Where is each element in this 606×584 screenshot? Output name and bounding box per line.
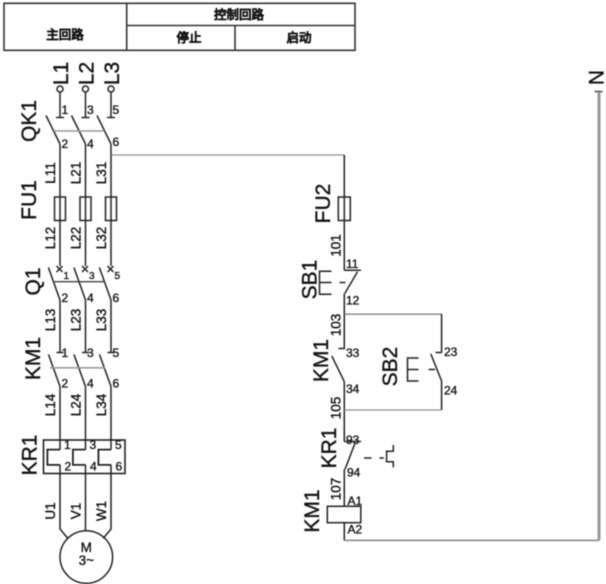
svg-text:105: 105: [329, 397, 344, 420]
KR1 heater pole1: [47, 450, 60, 465]
svg-text:Q1: Q1: [22, 267, 45, 295]
KM1 pin 2: [62, 377, 69, 391]
svg-text:N: N: [586, 70, 606, 85]
KR1 pin 1: [64, 438, 71, 452]
wire KR1 to coil: [343, 469, 345, 506]
QK1 pole1 blade: [46, 116, 60, 145]
Q1 pole1 x mark: [57, 266, 63, 272]
wire Q1 to KM1 pole3: [110, 300, 112, 353]
SB2 actuator: [408, 358, 419, 381]
Q1 pin 5: [115, 271, 121, 282]
svg-text:4: 4: [90, 460, 97, 474]
svg-text:1: 1: [64, 438, 71, 452]
wire L2 to QK1: [85, 92, 87, 118]
KM1 pole2 blade: [74, 355, 86, 387]
wire KR1 to motor W1: [103, 465, 111, 539]
svg-text:L12: L12: [43, 227, 58, 250]
table text 控制回路: [214, 7, 265, 22]
wire L24 label: [69, 393, 84, 416]
KR1 box: [44, 440, 126, 474]
KM1 pin 5: [113, 346, 120, 360]
contact KR1 aux label: [318, 428, 341, 469]
fuse FU1 pole1: [55, 197, 66, 221]
svg-text:2: 2: [62, 377, 69, 391]
svg-text:L2: L2: [76, 62, 99, 85]
SB2 top tick: [436, 352, 443, 354]
KM1 aux pin 33: [346, 346, 360, 360]
contact KM1 aux label: [310, 339, 333, 382]
wire U1 label: [43, 502, 58, 519]
wire KR1 to motor U1: [60, 465, 68, 539]
svg-text:3: 3: [87, 346, 94, 360]
KR1 aux pin 93: [346, 433, 360, 447]
table text 停止: [176, 30, 202, 45]
wire bottom return to N: [344, 539, 599, 541]
svg-text:KR1: KR1: [19, 435, 42, 476]
fuse FU1 wire pole1: [59, 197, 61, 221]
svg-text:FU1: FU1: [18, 180, 41, 220]
SB1 top tick: [344, 269, 361, 271]
QK1 pin 2: [62, 137, 69, 151]
Q1 pin 6: [113, 291, 120, 305]
breaker Q1 label: [22, 267, 45, 295]
svg-text:103: 103: [329, 314, 344, 337]
KM1 pin 4: [87, 377, 94, 391]
wire L23 label: [69, 309, 84, 332]
svg-text:107: 107: [329, 478, 344, 501]
svg-text:93: 93: [346, 433, 360, 447]
svg-text:6: 6: [113, 377, 120, 391]
table text 启动: [286, 30, 312, 45]
svg-text:23: 23: [444, 345, 458, 359]
wire control drop to FU2: [343, 155, 345, 197]
title table frame: [4, 3, 355, 50]
svg-text:94: 94: [347, 466, 361, 480]
KR1 aux pin 94: [347, 466, 361, 480]
QK1 pole3 blade: [97, 116, 111, 145]
fuse FU1 label: [18, 180, 41, 220]
wire L1 to QK1: [59, 92, 61, 118]
SB1 pin 12: [346, 294, 360, 308]
svg-text:4: 4: [87, 137, 94, 151]
KR1 trip link dashes: [364, 457, 384, 459]
KM1 pin 3: [87, 346, 94, 360]
wire N line: [598, 92, 601, 540]
KM1 pole3 top tick: [108, 352, 115, 354]
SB1 actuator link dash: [340, 282, 346, 284]
wire Q1 to KM1 pole1: [59, 300, 61, 353]
wire FU2 to SB1: [343, 221, 345, 271]
svg-text:V1: V1: [69, 503, 84, 520]
Q1 pole2 blade: [74, 268, 86, 301]
wire L31 label: [94, 162, 109, 185]
fuse FU2 label: [312, 184, 335, 224]
fuse FU1 wire pole3: [110, 197, 112, 221]
svg-text:24: 24: [444, 384, 458, 398]
coil KM1 pin A1: [348, 494, 363, 508]
wire L3 to QK1: [110, 92, 112, 118]
svg-text:2: 2: [62, 291, 69, 305]
svg-text:L23: L23: [69, 309, 84, 332]
KM1 pole1 top tick: [57, 352, 64, 354]
wire QK1 to FU1 pole3: [110, 144, 112, 197]
wire KM1 aux to node 105: [343, 382, 345, 442]
wire branch bottom from SB2: [344, 409, 441, 411]
svg-text:11: 11: [346, 257, 359, 271]
wire W1 label: [94, 501, 109, 521]
svg-text:4: 4: [87, 377, 94, 391]
fuse FU2: [338, 197, 350, 221]
svg-text:3~: 3~: [79, 553, 95, 568]
KM1 aux top tick: [339, 348, 346, 350]
svg-text:KM1: KM1: [310, 339, 333, 382]
wire L32 label: [94, 227, 109, 250]
KR1 heater pole2: [73, 450, 86, 465]
svg-text:SB1: SB1: [299, 260, 322, 300]
motor M text: [81, 540, 92, 555]
node L2 label: [76, 62, 99, 85]
wire L33 label: [94, 309, 109, 332]
coil KM1 label: [301, 489, 324, 532]
svg-text:FU2: FU2: [312, 184, 335, 224]
svg-text:2: 2: [65, 460, 72, 474]
wire SB1 to node 103: [343, 294, 345, 349]
wire L13 label: [43, 309, 58, 332]
pushbutton SB2 label: [379, 347, 402, 387]
KR1 aux blade: [345, 444, 355, 469]
svg-text:2: 2: [62, 137, 69, 151]
svg-text:1: 1: [62, 346, 69, 360]
terminal circle L2: [83, 86, 89, 92]
svg-text:33: 33: [346, 346, 360, 360]
svg-text:L22: L22: [69, 227, 84, 250]
KR1 pin 2: [65, 460, 72, 474]
wire SB2 drop: [441, 314, 443, 352]
motor 3~ text: [79, 553, 95, 568]
Q1 linkage bar: [53, 281, 105, 283]
contactor KM1 label: [22, 337, 45, 380]
wire FU1 to Q1 pole1: [59, 221, 61, 267]
fuse FU2 wire: [343, 197, 345, 221]
svg-text:L1: L1: [50, 62, 73, 85]
N line top tick: [595, 91, 603, 93]
svg-text:5: 5: [113, 103, 120, 117]
Q1 pole3 blade: [99, 268, 111, 301]
Q1 pin 3: [89, 271, 95, 282]
SB2 blade: [431, 354, 442, 381]
svg-text:KM1: KM1: [301, 489, 324, 532]
KM1 aux blade: [332, 356, 345, 382]
terminal circle L1: [57, 86, 63, 92]
switch QK1 label: [18, 100, 41, 142]
QK1 pole1 top tick: [56, 117, 64, 119]
KR1 pin 5: [115, 438, 122, 452]
coil KM1 pin A2: [348, 523, 363, 537]
wire 103 label: [329, 314, 344, 337]
svg-text:6: 6: [113, 291, 120, 305]
QK1 pin 4: [87, 137, 94, 151]
svg-text:5: 5: [115, 271, 121, 282]
svg-text:3: 3: [87, 103, 94, 117]
QK1 pin 5: [113, 103, 120, 117]
QK1 pole2 blade: [72, 116, 86, 145]
thermal relay KR1 label: [19, 435, 42, 476]
node L1 label: [50, 62, 73, 85]
SB1 actuator: [320, 271, 332, 294]
table text 主回路: [46, 27, 84, 42]
svg-text:1: 1: [62, 103, 69, 117]
svg-text:6: 6: [113, 135, 120, 149]
wire L14 label: [43, 393, 58, 416]
QK1 pin 6: [113, 135, 120, 149]
svg-text:L3: L3: [101, 62, 124, 85]
wire KM1 to KR1 pole1: [59, 387, 61, 450]
svg-text:1: 1: [64, 271, 70, 282]
KM1 aux pin 34: [346, 382, 360, 396]
Q1 pin 1: [64, 271, 70, 282]
wire Q1 to KM1 pole2: [85, 300, 87, 353]
KM1 pole3 blade: [100, 355, 112, 387]
svg-text:QK1: QK1: [18, 100, 41, 142]
svg-text:SB2: SB2: [379, 347, 402, 387]
svg-text:主回路: 主回路: [46, 27, 84, 42]
wire 101 label: [329, 234, 344, 257]
svg-text:4: 4: [87, 291, 94, 305]
svg-text:101: 101: [329, 234, 344, 257]
wire L21 label: [69, 162, 84, 185]
svg-text:L13: L13: [43, 309, 58, 332]
svg-text:U1: U1: [43, 502, 58, 519]
wire QK1 to FU1 pole1: [59, 144, 61, 197]
wire L22 label: [69, 227, 84, 250]
svg-text:L11: L11: [43, 162, 58, 184]
QK1 pin 3: [87, 103, 94, 117]
svg-text:A2: A2: [348, 523, 363, 537]
KM1 pin 6: [113, 377, 120, 391]
pushbutton SB1 label: [299, 260, 322, 300]
wire QK1 to FU1 pole2: [85, 144, 87, 197]
QK1 linkage bar: [54, 130, 105, 132]
KR1 pin 6: [116, 460, 123, 474]
wire V1 label: [69, 503, 84, 520]
svg-text:34: 34: [346, 382, 360, 396]
svg-text:5: 5: [115, 438, 122, 452]
svg-text:6: 6: [116, 460, 123, 474]
svg-text:3: 3: [89, 271, 95, 282]
wire KR1 to motor V1: [85, 465, 87, 531]
svg-text:KR1: KR1: [318, 428, 341, 469]
svg-text:L21: L21: [69, 162, 84, 185]
svg-text:5: 5: [113, 346, 120, 360]
QK1 pin 1: [62, 103, 69, 117]
fuse FU1 wire pole2: [85, 197, 87, 221]
wire 107 label: [329, 478, 344, 501]
svg-text:W1: W1: [94, 501, 109, 521]
svg-text:停止: 停止: [176, 30, 202, 45]
KM1 linkage bar: [50, 367, 105, 369]
wire L11 label: [43, 162, 58, 184]
wire 105 label: [329, 397, 344, 420]
node L3 label: [101, 62, 124, 85]
wire coil to corner: [343, 523, 345, 541]
fuse FU1 pole3: [106, 197, 117, 221]
wire branch top to SB2: [344, 313, 441, 315]
Q1 pole3 x mark: [108, 266, 114, 272]
wire L12 label: [43, 227, 58, 250]
wire KM1 to KR1 pole3: [110, 387, 112, 450]
wire SB2 return drop: [441, 381, 443, 410]
svg-text:KM1: KM1: [22, 337, 45, 380]
Q1 pole1 blade: [48, 268, 60, 301]
wire FU1 to Q1 pole3: [110, 221, 112, 267]
wire control tap from L31: [111, 154, 344, 156]
svg-text:L33: L33: [94, 309, 109, 332]
KR1 pin 3: [90, 438, 97, 452]
motor M1 circle: [60, 531, 113, 584]
svg-text:L34: L34: [94, 393, 109, 416]
QK1 pole2 top tick: [82, 117, 90, 119]
Q1 pin 2: [62, 291, 69, 305]
svg-text:L24: L24: [69, 393, 84, 416]
svg-text:控制回路: 控制回路: [214, 7, 265, 22]
node N label: [586, 70, 606, 85]
KR1 aux top tick: [344, 441, 361, 443]
svg-text:12: 12: [346, 294, 360, 308]
SB2 pin 24: [444, 384, 458, 398]
svg-text:L31: L31: [94, 162, 109, 185]
wire KM1 to KR1 pole2: [85, 387, 87, 450]
wire L34 label: [94, 393, 109, 416]
fuse FU1 pole2: [80, 197, 91, 221]
Q1 pin 4: [87, 291, 94, 305]
svg-text:L32: L32: [94, 227, 109, 250]
KM1 pole1 blade: [49, 355, 61, 387]
SB1 pin 11: [346, 257, 359, 271]
svg-text:L14: L14: [43, 393, 58, 416]
Q1 pole2 x mark: [82, 266, 88, 272]
wire FU1 to Q1 pole2: [85, 221, 87, 267]
coil KM1 box: [327, 506, 361, 522]
SB2 pin 23: [444, 345, 458, 359]
KM1 pin 1: [62, 346, 69, 360]
KR1 heater pole3: [98, 450, 111, 465]
terminal circle L3: [108, 86, 114, 92]
QK1 pole3 top tick: [107, 117, 115, 119]
KR1 pin 4: [90, 460, 97, 474]
KM1 pole2 top tick: [82, 352, 89, 354]
SB2 actuator link dash: [429, 369, 436, 371]
svg-text:启动: 启动: [286, 30, 312, 45]
SB1 blade: [345, 272, 358, 294]
KR1 trip symbol: [387, 445, 394, 467]
svg-text:3: 3: [90, 438, 97, 452]
